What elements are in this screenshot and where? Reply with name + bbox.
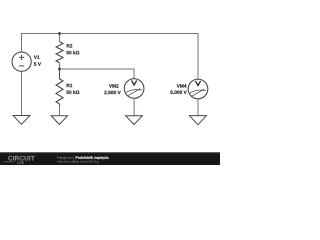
voltage source V1: [12, 52, 31, 71]
resistor R1: [56, 69, 63, 106]
voltmeter VM2: [124, 79, 144, 99]
VM4 meter needle: [192, 89, 205, 96]
wire mid node to VM2: [60, 69, 135, 79]
footer title author: [57, 156, 74, 159]
voltmeter VM4: [188, 79, 208, 99]
V1 minus sign: [19, 65, 24, 67]
value R1 50 kohm: [66, 90, 79, 94]
VM2 meter arc: [126, 90, 142, 93]
label V1: [34, 55, 40, 58]
ground under R1: [51, 116, 67, 125]
footer bar: [0, 152, 220, 165]
wire stub top rail to R2: [59, 34, 61, 42]
label VM2: [109, 84, 119, 87]
wire V1 bottom to ground: [21, 71, 23, 115]
ground under VM4: [190, 116, 207, 125]
node junction dot top rail/R2: [58, 32, 61, 35]
resistor R2: [56, 42, 63, 63]
V1 plus sign: [19, 55, 24, 60]
CircuitLab logo squiggle: [4, 161, 15, 163]
label R1: [67, 84, 73, 87]
wire VM2 bottom to ground: [133, 98, 135, 115]
CircuitLab logo LAB: [17, 161, 24, 163]
VM4 V mark: [195, 81, 200, 86]
label VM4: [177, 84, 187, 87]
VM4 meter arc: [190, 90, 206, 93]
value 2.500 V: [104, 91, 120, 94]
footer url: [57, 160, 98, 163]
value 5.000 V: [170, 91, 186, 94]
wire top rail: V1 top, across, down to VM4: [22, 34, 199, 80]
wire R2 bottom to mid node: [59, 63, 61, 69]
node junction dot mid R1/R2/VM2: [58, 68, 61, 71]
footer title name: [76, 156, 109, 159]
VM2 meter needle: [128, 89, 141, 96]
CircuitLab logo CIRCUIT: [8, 156, 34, 160]
VM2 V mark: [132, 80, 137, 85]
label R2: [67, 44, 73, 47]
value R2 50 kohm: [66, 51, 79, 55]
ground under V1: [13, 116, 30, 125]
wire VM4 bottom to ground: [197, 99, 199, 116]
value 5 V: [34, 62, 41, 65]
wire R1 bottom to ground: [59, 106, 61, 116]
ground under VM2: [126, 116, 143, 125]
